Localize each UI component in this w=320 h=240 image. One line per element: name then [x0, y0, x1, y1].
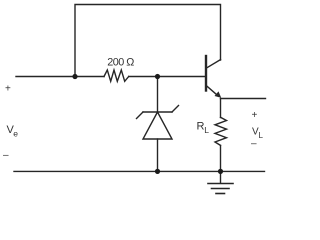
ground [208, 171, 233, 193]
svg-text:+: + [252, 110, 258, 121]
transistor Q1 NPN [206, 56, 221, 98]
svg-text:e: e [13, 129, 18, 139]
zener diode D1 [137, 77, 179, 172]
junction: zener to rail [155, 169, 160, 174]
svg-text:R: R [197, 121, 205, 133]
svg-text:200 Ω: 200 Ω [107, 57, 134, 69]
svg-text:+: + [5, 84, 11, 95]
wire: top feedback loop from node A to collector [75, 5, 221, 77]
wire: input + terminal to node A [16, 76, 104, 78]
wire: emitter node to output + terminal [221, 98, 266, 100]
wire: emitter node to RL [220, 99, 222, 118]
junction: RL/ground to rail [218, 169, 223, 174]
junction: node A (input/loop/resistor) [72, 74, 77, 79]
svg-text:L: L [259, 131, 264, 140]
label: Ve source [7, 124, 19, 139]
wire: resistor to node B and transistor base [129, 76, 205, 78]
label: VL output [252, 127, 264, 141]
svg-text:–: – [251, 139, 257, 150]
junction: node B (resistor/zener/base) [155, 74, 160, 79]
wire: bottom common rail [14, 170, 265, 172]
resistor R1 200 ohm [104, 70, 129, 81]
resistor RL [215, 117, 227, 145]
svg-text:–: – [3, 150, 9, 161]
wire: RL to ground rail [220, 145, 222, 171]
svg-text:L: L [204, 125, 209, 135]
label: RL [197, 121, 210, 136]
